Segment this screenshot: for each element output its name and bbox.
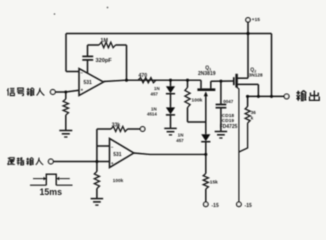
svg-text:3N128: 3N128 [249, 72, 263, 77]
svg-text:100k: 100k [113, 178, 124, 183]
svg-text:-15: -15 [245, 203, 252, 209]
svg-text:531: 531 [84, 80, 93, 86]
svg-text:36: 36 [251, 110, 257, 115]
svg-text:−: − [80, 70, 83, 75]
svg-text:457: 457 [176, 138, 184, 143]
svg-text:531: 531 [113, 152, 122, 158]
svg-text:320pF: 320pF [96, 58, 113, 64]
svg-text:15k: 15k [210, 179, 218, 185]
svg-text:2N3819: 2N3819 [198, 71, 216, 77]
svg-text:100k: 100k [192, 97, 203, 103]
svg-text:-15: -15 [212, 203, 219, 209]
svg-text:1M: 1M [101, 38, 109, 44]
svg-text:1N: 1N [151, 106, 157, 111]
svg-text:+: + [81, 87, 84, 92]
svg-text:33k: 33k [112, 122, 121, 128]
svg-text:+15: +15 [252, 17, 260, 23]
svg-text:15ms: 15ms [40, 187, 63, 197]
svg-text:0047: 0047 [223, 99, 234, 104]
svg-text:457: 457 [151, 91, 159, 96]
svg-text:470: 470 [139, 73, 148, 79]
svg-text:4514: 4514 [147, 112, 157, 117]
svg-text:CD18: CD18 [222, 113, 235, 119]
svg-text:1N: 1N [178, 132, 184, 137]
svg-text:FD4725: FD4725 [220, 124, 238, 130]
